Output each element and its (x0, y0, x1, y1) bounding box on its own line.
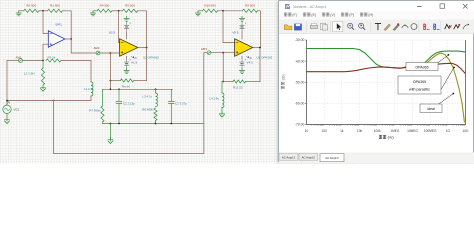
svg-text:(F): (F) (292, 13, 297, 17)
svg-text:1k: 1k (340, 129, 344, 133)
wire (AM3 corner down) (203, 53, 205, 124)
toolbar icons (284, 25, 291, 30)
svg-text:R3 2k: R3 2k (48, 55, 56, 59)
node B1 (input node) (42, 60, 44, 62)
node A1 (R2/R1 junction) (42, 10, 44, 12)
svg-text:L2 1.9H: L2 1.9H (24, 72, 35, 76)
svg-text:IN: IN (249, 57, 252, 60)
ground (top-left, stage 1 input divider) (16, 11, 21, 16)
wire (R9 to output corner) (258, 11, 261, 48)
wire (R5 to output corner) (138, 11, 147, 48)
svg-text:R7 300m: R7 300m (89, 109, 101, 113)
wire (stage 3 input) (204, 52, 207, 54)
pointer line to OPA365 curve (438, 55, 448, 62)
ground (below L2) (42, 85, 44, 88)
svg-text:OPA365: OPA365 (415, 65, 428, 69)
ground (top, stage 2 divider) (90, 11, 95, 16)
node OUT1 (op-amp 1 output) (65, 38, 71, 40)
node L1c (L3 top) (155, 88, 157, 90)
wire (VG1 to ground) (6, 114, 8, 118)
node B3 (L4 tap on + input wire) (222, 52, 224, 54)
wire (return loop) (54, 101, 204, 154)
maximize button (440, 4, 445, 9)
svg-text:AC Ampl:2: AC Ampl:2 (302, 155, 316, 159)
wire (V2 to op-amp V+) (126, 32, 128, 39)
svg-text:C1 2.13p: C1 2.13p (123, 101, 135, 105)
label box OPA365 (406, 63, 438, 71)
svg-text:L4 1.9u: L4 1.9u (209, 97, 219, 101)
wire (bottom rail to ground) (109, 124, 111, 139)
ground (above V5) (239, 16, 244, 21)
resistor R2 (500) (24, 9, 39, 12)
curve OPA365 (green) (307, 49, 466, 69)
svg-text:AC Ampl:1: AC Ampl:1 (282, 155, 296, 159)
svg-text:U1 OPA365: U1 OPA365 (143, 56, 159, 60)
ground (top, stage 3 divider) (195, 11, 200, 16)
wire (R3 to L1 corner) (61, 61, 91, 83)
resistor R4 (500) (97, 9, 112, 12)
svg-text:IN: IN (134, 57, 137, 60)
wire (interstage to + input) (79, 52, 96, 54)
ground (ladder) (109, 138, 111, 141)
inductor L3 (4.7u) (155, 89, 157, 93)
svg-text:OPA365: OPA365 (413, 80, 426, 84)
ground (below L4) (221, 111, 223, 114)
label box OPA365 with parasitic (398, 76, 441, 94)
svg-text:AM3: AM3 (201, 47, 207, 51)
resistor R6 (400k) (154, 108, 157, 121)
svg-text:10: 10 (305, 129, 309, 133)
diagram tabs (279, 153, 474, 164)
minimize button (417, 6, 422, 8)
svg-text:R6 400k: R6 400k (142, 108, 153, 112)
svg-text:Ra 50: Ra 50 (122, 84, 130, 88)
wire (V5 to op-amp V+) (241, 32, 243, 39)
capacitor C2 (3.37p) (171, 89, 172, 101)
svg-text:ideal: ideal (427, 107, 435, 111)
toolbar (279, 20, 474, 34)
node B2 (feedback tap on + input wire) (110, 52, 112, 54)
resistor Ra (50) (110, 80, 120, 82)
x axis title 频率 (Hz) (379, 135, 382, 139)
svg-text:100MEG: 100MEG (424, 129, 437, 133)
ground (below VG1) (6, 118, 8, 121)
node L2b (C1 bottom) (118, 123, 120, 125)
svg-text:AM2: AM2 (94, 46, 100, 50)
voltage generator VG1 (3, 105, 11, 113)
svg-text:R10 500: R10 500 (204, 3, 216, 7)
curve OPA365 with parasitic (dark red) (307, 63, 466, 74)
node L2c (R6 bottom) (155, 123, 157, 125)
svg-text:R4 500: R4 500 (100, 3, 110, 7)
svg-text:1MEG: 1MEG (390, 129, 400, 133)
pin label IN (stage 3) (247, 56, 249, 58)
op-amp U2 OPA365 (235, 39, 253, 56)
wire (gnd to R2) (19, 10, 24, 12)
wire (L1 to source rail) (7, 96, 91, 101)
close button (463, 4, 468, 9)
plot gridlines (306, 40, 308, 125)
node L1b (C1 top) (118, 88, 120, 90)
svg-text:R9 500: R9 500 (245, 3, 255, 7)
svg-text:-70.00: -70.00 (295, 123, 305, 127)
resistor R10 (500) (203, 9, 218, 12)
pointer line to ideal curve (433, 94, 453, 108)
wire (R10 to node) (218, 10, 243, 12)
wire (gnd to R4) (93, 10, 97, 12)
inductor L1 (2.3u) (91, 82, 93, 96)
menu bar (279, 12, 474, 20)
svg-text:R11 25: R11 25 (233, 85, 243, 89)
titlebar (279, 1, 474, 12)
node C1s (loop tap on source rail) (53, 100, 55, 102)
svg-text:-40.00: -40.00 (295, 59, 305, 63)
wire (source node up to AM1) (6, 61, 8, 105)
svg-text:R5 500: R5 500 (125, 3, 135, 7)
svg-text:U2 OPA365: U2 OPA365 (257, 56, 273, 60)
battery V5 (5V supply) (241, 22, 243, 25)
y axis title 增益 (dB) (281, 74, 286, 89)
svg-text:100k: 100k (374, 129, 381, 133)
resistor R11 (25) (223, 81, 233, 83)
resistor R5 (500) (123, 9, 138, 12)
svg-text:(H): (H) (368, 13, 373, 17)
node A3 (R10/R9 junction) (222, 10, 224, 12)
svg-text:10k: 10k (357, 129, 363, 133)
wire (R11 up to output) (259, 48, 261, 82)
node VG1+ (source node) (6, 100, 8, 102)
schematic svg (0, 0, 474, 164)
svg-text:-50.00: -50.00 (295, 80, 305, 84)
resistor R1 (500) (48, 9, 63, 12)
svg-text:V2 5: V2 5 (109, 31, 116, 35)
op-amp U1 OPA365 (120, 39, 138, 56)
svg-text:L1 2.3p: L1 2.3p (84, 87, 94, 91)
node OUT2 (op-amp 2 output) (138, 47, 147, 49)
curve ideal (olive) (399, 53, 465, 122)
svg-text:-60.00: -60.00 (295, 102, 305, 106)
wire (R1 to feedback corner) (63, 11, 72, 39)
svg-text:L3 4.7u: L3 4.7u (142, 95, 152, 99)
wire (output down to Ra) (146, 48, 148, 81)
node L1a (rail tap) (110, 88, 112, 90)
ground (above V2) (124, 16, 129, 21)
node L2d (C2 bottom) (170, 123, 172, 125)
svg-text:R1 500: R1 500 (50, 3, 60, 7)
svg-text:AC Ampl:3: AC Ampl:3 (325, 156, 339, 160)
svg-text:with parasitic: with parasitic (409, 88, 430, 92)
window icon (285, 4, 290, 9)
resistor R3 (2k) (46, 59, 61, 62)
pointer line to parasitic curve (441, 68, 454, 90)
op-amp U!OP1 (ideal) (48, 31, 65, 47)
toolbar separators (306, 22, 308, 33)
wire (ladder bottom rail) (103, 123, 204, 125)
svg-text:-30.00: -30.00 (295, 38, 305, 42)
resistor R7 (300m) (102, 89, 104, 106)
wire (node A2 down to inverting input) (119, 11, 120, 43)
inductor L4 (1.9u) (221, 82, 223, 94)
battery V1 (5V supply) (126, 56, 128, 58)
wire (output down to interstage) (71, 39, 79, 53)
node OUT3 (op-amp 3 output) (253, 47, 261, 49)
svg-text:C2 3.37p: C2 3.37p (175, 101, 187, 105)
label box ideal (420, 104, 442, 113)
svg-text:V4 5: V4 5 (247, 61, 254, 65)
pin label IN (stage 2) (132, 56, 134, 58)
svg-text:V1 5: V1 5 (131, 61, 138, 65)
svg-text:R2 500: R2 500 (26, 3, 36, 7)
capacitor C1 (2.13p) (118, 89, 120, 101)
wire (non-inverting input) (43, 44, 48, 60)
svg-text:(E): (E) (311, 13, 316, 17)
svg-text:VG1: VG1 (14, 108, 20, 112)
svg-text:!OP1: !OP1 (55, 23, 62, 27)
wire (node A1 down to inverting input) (43, 11, 48, 34)
wire (tap down to R11 node) (222, 53, 224, 82)
battery V2 (5V supply) (126, 22, 128, 25)
ground (below V1) (124, 68, 129, 73)
node B3b (R11/L4 junction) (222, 81, 224, 83)
svg-text:(dB): (dB) (282, 74, 286, 80)
node L2a (gnd tap) (110, 123, 112, 125)
inductor L2 (1.9H) (42, 61, 44, 69)
wire (R4 to node) (112, 10, 123, 12)
svg-text:10G: 10G (462, 129, 469, 133)
svg-text:V5 5: V5 5 (232, 31, 239, 35)
wire (VG1 to AM1 node) (7, 60, 19, 62)
wire (tap down to ladder rail) (109, 81, 111, 90)
wire (R2 to node) (39, 10, 48, 12)
wire (tap up to + input) (109, 53, 111, 81)
node A2 (R4/R5 junction) (118, 10, 120, 12)
svg-text:10MEG: 10MEG (407, 129, 418, 133)
battery V4 (5V supply) (241, 56, 243, 58)
svg-text:(Hz): (Hz) (388, 136, 394, 140)
svg-text:(P): (P) (349, 13, 354, 17)
resistor R9 (500) (243, 9, 258, 12)
wire (node A3 down to inverting input) (223, 11, 235, 43)
AC analysis window (278, 0, 474, 162)
svg-text:Noname - AC Ampl:1: Noname - AC Ampl:1 (293, 5, 327, 9)
wire (ladder top rail) (103, 88, 173, 90)
node B2b (Ra to ladder tap) (110, 80, 112, 82)
svg-text:1G: 1G (446, 129, 451, 133)
svg-text:100: 100 (322, 129, 328, 133)
svg-text:(V): (V) (330, 13, 335, 17)
ground (below V4) (239, 68, 244, 73)
plot axes (307, 40, 466, 125)
wire (gnd to R10) (198, 10, 203, 12)
